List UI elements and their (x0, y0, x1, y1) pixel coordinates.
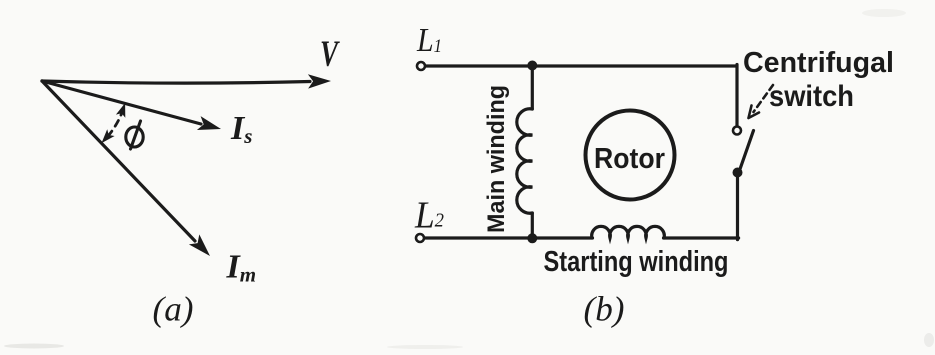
svg-text:Centrifugal: Centrifugal (743, 47, 894, 79)
svg-text:Main winding: Main winding (483, 85, 510, 233)
svg-text:(a): (a) (153, 290, 194, 329)
svg-text:(b): (b) (584, 290, 625, 329)
svg-text:switch: switch (769, 80, 854, 113)
svg-text:Rotor: Rotor (594, 143, 665, 175)
svg-text:Starting winding: Starting winding (544, 246, 729, 278)
svg-text:V: V (320, 34, 340, 75)
